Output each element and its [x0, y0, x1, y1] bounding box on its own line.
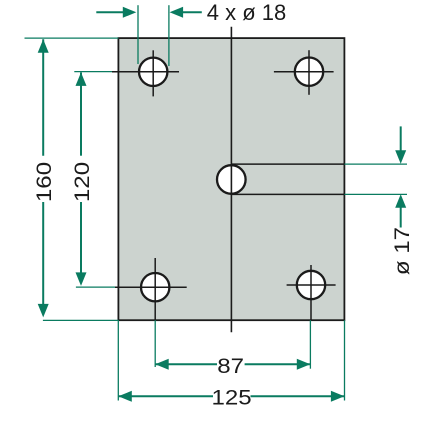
dimension line 120 upper shaft: [80, 72, 82, 155]
tangent line phi17 bottom (black inside plate): [231, 193, 344, 195]
dimension line 87 left segment: [156, 363, 217, 365]
extension line 87 left (below BL hole): [154, 320, 156, 367]
extension line 125 left: [117, 320, 119, 400]
hole top-left: [139, 58, 167, 86]
hole bottom-left: [141, 273, 169, 301]
dimension phi17 lower shaft: [400, 208, 402, 228]
crosshair top-right horizontal: [274, 71, 334, 73]
arrowhead 87 right: [297, 359, 311, 370]
plate (mounting plate body): [118, 38, 344, 320]
svg-text:ø 17: ø 17: [389, 227, 413, 275]
crosshair bottom-left horizontal: [115, 286, 187, 288]
extension line 120 top: [74, 71, 114, 73]
arrowhead phi17 up: [395, 194, 406, 208]
hole bottom-right: [297, 271, 325, 299]
tangent line phi17 top (black inside plate): [231, 163, 344, 165]
arrowhead phi18 right-pointing: [123, 7, 137, 18]
dimension phi18 left shaft: [96, 11, 125, 13]
crosshair top-right vertical: [308, 50, 310, 95]
centerline vertical: [230, 27, 232, 333]
arrowhead 160 down: [38, 304, 49, 318]
arrowhead 125 right: [331, 391, 345, 402]
extension line 87 right (below BR hole): [309, 320, 311, 369]
crosshair bottom-left vertical: [154, 258, 156, 321]
extension line phi18 right: [168, 5, 170, 66]
arrowhead 87 left: [155, 359, 169, 370]
dimension phi17 upper shaft: [400, 126, 402, 151]
tangent line phi17 bottom extension (teal outside): [345, 193, 408, 195]
central hole: [217, 165, 246, 194]
dimension line 125 left segment: [118, 395, 213, 397]
dimension line 125 right segment: [251, 395, 345, 397]
arrowhead 160 up: [38, 39, 49, 53]
dimension phi18 right shaft: [182, 11, 202, 13]
dimension line 160 upper shaft: [42, 39, 44, 156]
extension line 120 bottom: [76, 286, 118, 288]
extension line 125 right: [344, 320, 346, 400]
arrowhead phi17 down: [395, 150, 406, 164]
crosshair bottom-right vertical: [310, 265, 312, 321]
extension line phi18 left: [137, 5, 139, 64]
crosshair top-left vertical: [152, 50, 154, 96]
arrowhead 125 left: [118, 391, 132, 402]
arrowhead 120 up: [76, 72, 87, 86]
dimension line 87 right segment: [245, 363, 310, 365]
svg-text:125: 125: [212, 385, 252, 409]
dimension line 120 lower shaft: [80, 202, 82, 273]
tangent line phi17 top extension (teal outside): [345, 163, 408, 165]
hole top-right: [295, 57, 323, 85]
crosshair top-left horizontal: [112, 71, 179, 73]
svg-text:4 x ø 18: 4 x ø 18: [207, 0, 286, 25]
svg-text:160: 160: [31, 162, 55, 202]
arrowhead phi18 left-pointing: [170, 7, 184, 18]
crosshair bottom-right horizontal: [287, 284, 336, 286]
svg-text:87: 87: [217, 353, 244, 377]
extension line 160 bottom: [43, 319, 119, 321]
arrowhead 120 down: [76, 272, 87, 286]
svg-text:120: 120: [69, 162, 93, 202]
dimension line 160 lower shaft: [42, 202, 44, 305]
extension line 160 top: [25, 37, 119, 39]
